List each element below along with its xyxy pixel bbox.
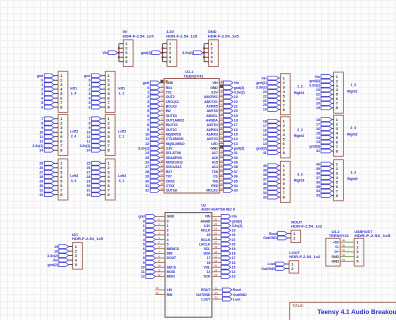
svg-text:T08: T08 [212, 179, 218, 183]
svg-text:5: 5 [75, 262, 78, 267]
svg-text:19: 19 [263, 108, 267, 112]
svg-text:1_2: 1_2 [297, 85, 303, 89]
svg-text:Lout: Lout [268, 262, 276, 266]
net label 3.3v(1) to J_Left2_1 Left2 2_1 pin 7 [80, 144, 106, 148]
svg-text:32: 32 [39, 193, 43, 197]
svg-text:18: 18 [232, 252, 236, 256]
net label 0 to J_left1_1 left1 1_1 pin 2 [88, 78, 105, 82]
U2 pin 30 RIN stub [155, 291, 165, 295]
connector J_left1_4 left1 1_4 [58, 71, 77, 112]
svg-text:4: 4 [41, 96, 43, 100]
svg-text:left1: left1 [70, 87, 77, 91]
svg-text:34: 34 [234, 184, 238, 188]
svg-text:38: 38 [263, 173, 267, 177]
svg-text:2: 2 [41, 87, 43, 91]
svg-text:HDR-F-2.54_1x5: HDR-F-2.54_1x5 [354, 233, 391, 238]
svg-text:1_1: 1_1 [119, 91, 125, 95]
svg-text:31: 31 [39, 188, 43, 192]
svg-text:SCK: SCK [203, 275, 211, 279]
svg-text:Right3: Right3 [294, 179, 305, 183]
svg-text:37: 37 [316, 176, 320, 180]
svg-text:23: 23 [316, 88, 320, 92]
svg-text:OUT1B: OUT1B [166, 189, 178, 193]
net label 14 to J_Right2_2 2_2 Right2 pin 5 [263, 137, 281, 141]
svg-text:41: 41 [234, 151, 238, 155]
svg-text:8: 8 [336, 193, 339, 198]
net label 23 wire to U1.1 pin 45 [219, 93, 237, 99]
net label 31 wire to U1.1 pin 23 [145, 182, 164, 188]
svg-text:25: 25 [87, 162, 91, 166]
svg-text:D+: D+ [335, 250, 339, 254]
net label Lout to LOUT pin 1 [268, 262, 290, 266]
svg-text:5: 5 [41, 101, 43, 105]
svg-text:CTX3: CTX3 [166, 184, 175, 188]
net label 18 to J_Right2_3 2_3 Right2 pin 1 [316, 118, 334, 122]
svg-text:33: 33 [316, 194, 320, 198]
svg-text:25: 25 [39, 162, 43, 166]
net label 25 wire to U1.1 pin 17 [145, 154, 164, 160]
net label 8 wire to U2 pin 8 [143, 254, 165, 260]
svg-text:D-: D- [335, 245, 339, 249]
wire bus to GND header pins [204, 44, 208, 62]
svg-text:19: 19 [232, 247, 236, 251]
net label 27 wire to U1.1 pin 19 [145, 163, 164, 169]
net label 5 to J_left1_4 left1 1_4 pin 7 [41, 101, 58, 105]
svg-text:2_4: 2_4 [71, 135, 77, 139]
connector J_left1_1 left1 1_1 [105, 71, 125, 112]
svg-text:OutGND: OutGND [263, 236, 277, 240]
net label 6 to J_left1_1 left1 1_1 pin 8 [88, 105, 105, 109]
net label 20 to J_Right1_2 1_2 Right1 pin 7 [263, 103, 281, 107]
svg-text:A2/RX4: A2/RX4 [206, 128, 218, 132]
svg-text:LOUT: LOUT [201, 297, 211, 301]
net label 20 wire to U1.1 pin 42 [219, 107, 237, 113]
net label 8 to J_Left2_1 Left2 2_1 pin 2 [88, 121, 105, 125]
net label OutGND to ROUT pin 2 [263, 236, 291, 240]
net label 26 wire to U1.1 pin 18 [145, 159, 164, 165]
svg-text:Left2: Left2 [118, 130, 126, 134]
svg-text:A14: A14 [212, 165, 218, 169]
net label 21 wire to U1.1 pin 43 [219, 103, 237, 109]
net label 39 to J_Right3_2 3_2 Right3 pin 2 [263, 168, 281, 172]
svg-text:11: 11 [40, 135, 44, 139]
wire U1.2 pin 53 to USBHOST pin 5 [340, 258, 354, 262]
svg-text:Right2: Right2 [347, 133, 358, 137]
net label 36 to J_Right3_3 3_3 Right3 pin 5 [316, 180, 334, 184]
svg-text:A15: A15 [212, 161, 218, 165]
svg-text:24: 24 [39, 148, 43, 152]
svg-text:20: 20 [234, 109, 238, 113]
svg-text:22: 22 [234, 100, 238, 104]
net label 40 to J_Right3_3 3_3 Right3 pin 1 [316, 162, 334, 166]
net label 11 to J_Left2_1 Left2 2_1 pin 5 [87, 135, 106, 139]
svg-text:A8/CTX1: A8/CTX1 [204, 100, 218, 104]
svg-text:7: 7 [143, 252, 145, 256]
net label 8 wire to U1.1 pin 10 [147, 121, 164, 127]
svg-text:17: 17 [263, 124, 267, 128]
net label gnd wire to U2 pin GND [138, 215, 165, 219]
svg-text:35: 35 [234, 179, 238, 183]
net label Vin wire to U1.1 pin 48 [219, 79, 239, 85]
net label gnd wire to U1.1 pin 1 [143, 80, 164, 85]
svg-text:RIN: RIN [167, 293, 173, 297]
svg-text:A3/TX4: A3/TX4 [207, 123, 218, 127]
svg-text:4: 4 [143, 238, 145, 242]
svg-text:4: 4 [88, 96, 90, 100]
connector ROUT HDR-F-2.54_1x2 [291, 220, 323, 243]
net label 16 wire to U1.1 pin 38 [219, 126, 237, 132]
net label 24 to J_Left2_4 Left2 2_4 pin 8 [39, 148, 58, 152]
net label 30 to J_Left3_1 Left3 3_1 pin 6 [87, 184, 106, 188]
net label 37 wire to U1.1 pin 29 [219, 168, 237, 174]
svg-text:28: 28 [145, 170, 149, 174]
svg-text:3_4: 3_4 [71, 179, 77, 183]
svg-text:3.3v(1): 3.3v(1) [80, 144, 92, 148]
svg-text:A5/SCL: A5/SCL [206, 114, 219, 118]
net label 15 to J_Right2_2 2_2 Right2 pin 4 [263, 133, 281, 137]
svg-text:A0/TX3: A0/TX3 [207, 137, 218, 141]
svg-text:22: 22 [232, 233, 236, 237]
net label OutGND to LOUT pin 2 [261, 267, 289, 271]
svg-text:3.3V: 3.3V [211, 91, 218, 95]
svg-text:8: 8 [143, 256, 145, 260]
net label 38 wire to U1.1 pin 30 [219, 163, 237, 169]
svg-text:21: 21 [232, 238, 236, 242]
svg-text:GND: GND [166, 81, 174, 85]
svg-text:8: 8 [108, 104, 111, 109]
svg-text:40: 40 [316, 162, 320, 166]
svg-text:23: 23 [232, 229, 236, 233]
svg-text:26: 26 [87, 166, 91, 170]
svg-text:12: 12 [39, 140, 43, 144]
svg-text:13: 13 [232, 275, 236, 279]
svg-text:SCL2/TX6: SCL2/TX6 [166, 151, 181, 155]
svg-text:8: 8 [283, 107, 286, 112]
net label gnd to J_left1_4 left1 1_4 pin 1 [37, 74, 58, 78]
net label gnd(2) wire to U2 pin 26 [212, 218, 243, 224]
net label 17 to J_Right2_2 2_2 Right2 pin 2 [263, 124, 281, 128]
net label gnd(3) to J_Right2_3 2_3 Right2 pin 7 [309, 145, 333, 149]
svg-text:Right1: Right1 [347, 89, 358, 93]
net label 9 to J_Left2_4 Left2 2_4 pin 3 [41, 126, 58, 130]
svg-text:Rout: Rout [233, 288, 242, 292]
svg-text:1_4: 1_4 [71, 91, 77, 95]
net label 13 to J_Right2_3 2_3 Right2 pin 6 [316, 140, 334, 144]
svg-text:14: 14 [232, 270, 236, 274]
svg-text:CRX3: CRX3 [166, 179, 175, 183]
net label 41 wire to U1.1 pin 33 [219, 149, 237, 155]
net label 7 wire to U1.1 pin 9 [147, 117, 164, 123]
wire U1.2 pin 49 to USBHOST pin 1 [340, 239, 354, 243]
svg-text:5: 5 [169, 59, 172, 64]
net label 11 to J_Left2_4 Left2 2_4 pin 5 [40, 135, 59, 139]
svg-text:IN1/TX2: IN1/TX2 [166, 123, 178, 127]
svg-text:10: 10 [145, 133, 149, 137]
net label 0 to J_left1_4 left1 1_4 pin 2 [41, 78, 58, 82]
svg-text:3_2: 3_2 [297, 172, 303, 176]
net label 5 wire to U2 pin 5 [143, 241, 165, 247]
net label 36 to J_Right3_2 3_2 Right3 pin 5 [263, 182, 281, 186]
net label 34 to J_Right3_3 3_3 Right3 pin 7 [316, 189, 334, 193]
net label 17 wire to U1.1 pin 39 [219, 121, 237, 127]
svg-text:3: 3 [143, 233, 145, 237]
net label 20 wire to U2 pin 20 [212, 241, 236, 247]
net label Rout wire to U2 pin 31 [212, 286, 242, 292]
svg-text:3: 3 [167, 233, 169, 237]
svg-text:1: 1 [147, 91, 149, 95]
net label 37 to J_Right3_3 3_3 Right3 pin 4 [316, 176, 334, 180]
svg-text:8: 8 [60, 104, 63, 109]
net label 13 wire to U1.1 pin 35 [219, 140, 237, 146]
net label gnd(2) to I2C pin 5 [48, 263, 73, 267]
svg-text:0: 0 [88, 78, 90, 82]
net label gnd to J_left1_1 left1 1_1 pin 1 [84, 74, 105, 78]
net label 33 wire to U1.1 pin 25 [219, 187, 237, 193]
net label 27 to J_Left3_1 Left3 3_1 pin 3 [87, 170, 106, 174]
connector J_Left3_1 Left3 3_1 [105, 159, 126, 200]
svg-text:2_3: 2_3 [350, 126, 356, 130]
svg-text:5: 5 [143, 242, 145, 246]
svg-text:27: 27 [87, 171, 91, 175]
svg-text:33: 33 [263, 195, 267, 199]
svg-text:1: 1 [143, 224, 145, 228]
svg-text:VOL: VOL [204, 266, 212, 270]
svg-text:Vin: Vin [315, 75, 320, 79]
svg-text:CTX1/MOSI: CTX1/MOSI [166, 137, 184, 141]
svg-text:MQSL/MISO: MQSL/MISO [166, 142, 185, 146]
svg-text:6: 6 [88, 105, 90, 109]
svg-text:36: 36 [263, 182, 267, 186]
svg-text:Right3: Right3 [347, 177, 358, 181]
net label 18 to J_Right2_2 2_2 Right2 pin 1 [263, 119, 281, 123]
net label 19 to I2C pin 1 [54, 245, 72, 249]
svg-text:1_3: 1_3 [350, 83, 356, 87]
svg-text:34: 34 [316, 189, 320, 193]
svg-text:GND: GND [331, 260, 339, 264]
svg-text:8: 8 [147, 123, 149, 127]
svg-text:16: 16 [263, 128, 267, 132]
svg-text:2: 2 [293, 235, 296, 240]
net label 3.3v(2) wire to U1.1 pin 46 [219, 89, 245, 95]
op-amp U1.2 TEENSY41 USB host pins [326, 229, 350, 266]
net label 2 wire to U2 pin 2 [143, 227, 165, 233]
net label 40 to J_Right3_2 3_2 Right3 pin 1 [263, 164, 281, 168]
svg-text:gnd: gnd [143, 81, 149, 85]
net label OutGND wire to U2 pin 30 [212, 291, 247, 297]
svg-text:Rout: Rout [269, 232, 278, 236]
net label 38 to J_Right3_3 3_3 Right3 pin 3 [316, 171, 334, 175]
svg-text:HDR-F-2.54_1x5: HDR-F-2.54_1x5 [208, 33, 240, 38]
net label 2 wire to U1.1 pin 4 [147, 93, 164, 99]
net label 1 to J_left1_1 left1 1_1 pin 3 [88, 83, 105, 87]
net label 23 wire to U2 pin 23 [212, 227, 236, 233]
svg-text:23: 23 [263, 90, 267, 94]
net label 14 wire to U2 pin 14 [212, 268, 236, 274]
connector 3.3V HDR-F-2.54_1x5 [166, 29, 198, 66]
net label 10 to J_Left2_4 Left2 2_4 pin 4 [39, 130, 58, 134]
svg-text:36: 36 [316, 180, 320, 184]
svg-text:41: 41 [316, 149, 320, 153]
svg-text:17: 17 [316, 122, 320, 126]
svg-text:A7/RX5: A7/RX5 [206, 105, 218, 109]
svg-text:BCLK2: BCLK2 [166, 105, 177, 109]
connector J_Left2_1 Left2 2_1 [105, 114, 126, 155]
svg-text:Vin: Vin [102, 51, 107, 55]
svg-text:3.3v(2): 3.3v(2) [47, 254, 59, 258]
svg-text:9: 9 [41, 126, 43, 130]
svg-text:29: 29 [87, 180, 91, 184]
svg-text:GND: GND [210, 147, 218, 151]
net label 1 to J_left1_4 left1 1_4 pin 3 [41, 83, 58, 87]
svg-text:A16: A16 [212, 156, 218, 160]
svg-text:30: 30 [39, 184, 43, 188]
net label 31 to J_Left3_4 Left3 3_4 pin 7 [39, 188, 58, 192]
net label 7 to J_Left2_4 Left2 2_4 pin 1 [41, 117, 58, 121]
svg-text:5: 5 [147, 109, 149, 113]
svg-text:3.3v(2): 3.3v(2) [309, 84, 321, 88]
svg-text:15: 15 [234, 133, 238, 137]
svg-text:7: 7 [88, 117, 90, 121]
svg-text:9: 9 [88, 126, 90, 130]
net label 18 wire to U1.1 pin 40 [219, 117, 237, 123]
net label 28 wire to U1.1 pin 20 [145, 168, 164, 174]
svg-text:18: 18 [234, 119, 238, 123]
net label 41 to J_Right2_3 2_3 Right2 pin 8 [316, 149, 334, 153]
svg-text:BCLK: BCLK [201, 238, 211, 242]
net label 4 to J_left1_4 left1 1_4 pin 6 [41, 96, 58, 100]
net label 3 to J_left1_1 left1 1_1 pin 5 [88, 92, 105, 96]
svg-text:3_3: 3_3 [350, 171, 356, 175]
svg-text:24: 24 [145, 151, 149, 155]
net label 26 to J_Left3_4 Left3 3_4 pin 2 [39, 166, 58, 170]
svg-text:3: 3 [147, 100, 149, 104]
net label 34 wire to U1.1 pin 26 [219, 182, 237, 188]
wire U1.2 pin 52 to USBHOST pin 4 [340, 253, 354, 257]
net label Vin to J_Right1_3 1_3 Right1 pin 1 [315, 75, 334, 79]
net label gnd(2) to J_Right1_2 1_2 Right1 pin 2 [256, 81, 280, 85]
net label 37 to J_Right3_2 3_2 Right3 pin 4 [263, 177, 281, 181]
svg-text:22: 22 [207, 233, 211, 237]
svg-text:3.3v(1): 3.3v(1) [138, 147, 150, 151]
net label 9 wire to U2 pin 9 [143, 259, 165, 265]
svg-text:26: 26 [145, 161, 149, 165]
svg-text:12: 12 [141, 275, 145, 279]
net label 23 to J_Right1_3 1_3 Right1 pin 4 [316, 88, 334, 92]
connector 5V HDR-F-2.54_1x5 [123, 29, 155, 66]
svg-text:TX1: TX1 [166, 91, 172, 95]
net label 21 to J_Right1_3 1_3 Right1 pin 6 [316, 97, 334, 101]
svg-text:OUT2: OUT2 [166, 95, 175, 99]
svg-text:SDA2/RX6: SDA2/RX6 [166, 156, 182, 160]
svg-text:gnd(3): gnd(3) [309, 145, 320, 149]
svg-text:35: 35 [316, 185, 320, 189]
svg-text:39: 39 [263, 168, 267, 172]
wire U1.2 pin 51 to USBHOST pin 3 [340, 248, 354, 252]
svg-text:10: 10 [141, 266, 145, 270]
net label 30 to J_Left3_4 Left3 3_4 pin 6 [39, 184, 58, 188]
net label 4 wire to U2 pin 4 [143, 236, 165, 242]
svg-text:MOSI: MOSI [167, 270, 176, 274]
net label 3 to J_left1_4 left1 1_4 pin 5 [41, 92, 58, 96]
svg-text:OUTGND: OUTGND [196, 293, 211, 297]
net label 28 to J_Left3_4 Left3 3_4 pin 4 [39, 175, 58, 179]
svg-text:8: 8 [108, 192, 111, 197]
svg-text:0: 0 [143, 219, 145, 223]
svg-text:OutGND: OutGND [233, 293, 247, 297]
svg-text:2_2: 2_2 [297, 128, 303, 132]
svg-text:37: 37 [263, 177, 267, 181]
net label 22 wire to U1.1 pin 44 [219, 98, 237, 104]
net label 29 wire to U1.1 pin 21 [145, 173, 164, 179]
svg-text:gnd(2): gnd(2) [309, 79, 320, 83]
net label 3.3v(2) [182, 51, 204, 55]
svg-text:32: 32 [145, 189, 149, 193]
svg-text:8: 8 [60, 148, 63, 153]
net label 34 to J_Right3_2 3_2 Right3 pin 7 [263, 191, 281, 195]
net label 33 to J_Right3_2 3_2 Right3 pin 8 [263, 195, 281, 199]
net label 25 to J_Left3_4 Left3 3_4 pin 1 [39, 161, 58, 165]
net label 10 wire to U1.1 pin 12 [145, 131, 164, 137]
svg-text:2: 2 [143, 229, 145, 233]
net label 13 to J_Right2_2 2_2 Right2 pin 6 [263, 142, 281, 146]
net label 9 to J_Left2_1 Left2 2_1 pin 3 [88, 126, 105, 130]
svg-text:1: 1 [41, 83, 43, 87]
net label 0 wire to U1.1 pin 2 [147, 84, 164, 90]
svg-text:MISO: MISO [167, 275, 176, 279]
svg-text:19: 19 [316, 106, 320, 110]
svg-text:38: 38 [234, 165, 238, 169]
net label 3.3v(1) wire to U1.1 pin 15 [138, 145, 164, 151]
junction dots on 5V bus [118, 47, 120, 58]
svg-text:2_1: 2_1 [119, 135, 125, 139]
svg-text:9: 9 [143, 261, 145, 265]
svg-text:7: 7 [147, 119, 149, 123]
connector J_Right1_3 1_3 Right1 [334, 72, 358, 113]
svg-text:Right2: Right2 [294, 134, 305, 138]
net label 22 to J_Right1_3 1_3 Right1 pin 5 [316, 93, 334, 97]
svg-text:14: 14 [263, 137, 267, 141]
svg-text:MOSI1/A12: MOSI1/A12 [166, 161, 183, 165]
junction dots on GND bus [203, 47, 205, 58]
net label 2 to J_left1_4 left1 1_4 pin 4 [41, 87, 58, 91]
svg-text:3_1: 3_1 [119, 179, 125, 183]
svg-text:20: 20 [316, 102, 320, 106]
svg-text:gnd(2): gnd(2) [256, 81, 267, 85]
svg-text:37: 37 [234, 170, 238, 174]
svg-text:Vin: Vin [261, 76, 266, 80]
connector J_Right3_3 3_3 Right3 [334, 160, 358, 201]
svg-text:4: 4 [167, 238, 169, 242]
svg-text:TX7: TX7 [166, 175, 172, 179]
svg-text:Lout: Lout [233, 297, 241, 301]
svg-text:8: 8 [283, 194, 286, 199]
net label 5 to J_left1_1 left1 1_1 pin 7 [88, 101, 105, 105]
net label 29 to J_Left3_4 Left3 3_4 pin 5 [39, 179, 58, 183]
net label 36 wire to U1.1 pin 28 [219, 173, 237, 179]
net label 22 to J_Right1_2 1_2 Right1 pin 5 [263, 94, 281, 98]
svg-text:Teensy 4.1 Audio Breakout: Teensy 4.1 Audio Breakout [317, 309, 396, 316]
svg-text:HDR-F-2.54_1x2: HDR-F-2.54_1x2 [291, 224, 323, 229]
net label 3.3v(2) to J_Right1_3 1_3 Right1 pin 3 [309, 84, 334, 88]
net label 2 to J_left1_1 left1 1_1 pin 4 [88, 87, 105, 91]
net label 21 to J_Right1_2 1_2 Right1 pin 6 [263, 99, 281, 103]
svg-text:4: 4 [147, 105, 149, 109]
svg-text:0: 0 [41, 78, 43, 82]
svg-text:SDCS: SDCS [167, 266, 177, 270]
svg-text:9: 9 [147, 128, 149, 132]
svg-text:gnd(3): gnd(3) [234, 147, 245, 151]
svg-text:MEMCS: MEMCS [167, 247, 180, 251]
